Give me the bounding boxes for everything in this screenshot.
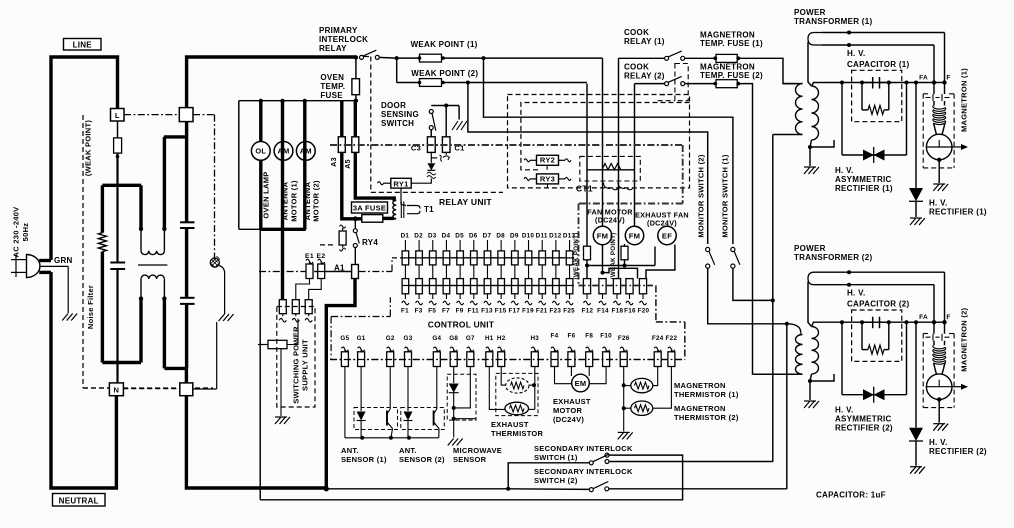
- svg-text:H. V.: H. V.: [847, 49, 865, 58]
- svg-text:POWER: POWER: [794, 244, 826, 253]
- svg-text:H3: H3: [530, 335, 539, 342]
- svg-text:MOTOR (2): MOTOR (2): [312, 180, 321, 222]
- svg-text:ASYMMETRIC: ASYMMETRIC: [835, 415, 892, 424]
- svg-text:F: F: [946, 75, 950, 82]
- svg-text:MAGNETRON (1): MAGNETRON (1): [960, 68, 969, 132]
- svg-text:D10: D10: [522, 233, 535, 240]
- svg-text:ASYMMETRIC: ASYMMETRIC: [835, 175, 892, 184]
- svg-text:TEMP.: TEMP.: [320, 82, 345, 91]
- svg-text:F13: F13: [481, 308, 493, 315]
- svg-text:F17: F17: [508, 308, 520, 315]
- svg-text:F25: F25: [563, 308, 575, 315]
- svg-text:(DC24V): (DC24V): [595, 216, 625, 225]
- svg-text:A3: A3: [331, 157, 338, 167]
- svg-text:RY4: RY4: [362, 238, 378, 247]
- svg-text:(WEAK POINT): (WEAK POINT): [573, 232, 580, 279]
- svg-text:SWITCH: SWITCH: [381, 119, 414, 128]
- svg-text:MAGNETRON: MAGNETRON: [674, 381, 726, 390]
- svg-text:H. V.: H. V.: [847, 289, 865, 298]
- svg-text:RY2: RY2: [540, 156, 555, 165]
- svg-text:COOK: COOK: [624, 28, 649, 37]
- svg-text:INTERLOCK: INTERLOCK: [319, 35, 368, 44]
- svg-text:A5: A5: [345, 159, 352, 169]
- svg-text:F18: F18: [612, 308, 624, 315]
- svg-text:F20: F20: [638, 308, 650, 315]
- svg-text:RECTIFIER (2): RECTIFIER (2): [929, 447, 987, 456]
- svg-text:N: N: [114, 385, 120, 394]
- svg-text:CT1: CT1: [576, 184, 593, 194]
- svg-text:EM: EM: [575, 379, 587, 388]
- svg-text:ANTENNA: ANTENNA: [303, 181, 312, 220]
- svg-text:F21: F21: [536, 308, 548, 315]
- svg-text:FM: FM: [629, 232, 641, 241]
- svg-text:F23: F23: [550, 308, 562, 315]
- svg-text:(DC24V): (DC24V): [647, 219, 677, 228]
- svg-text:ANT.: ANT.: [399, 446, 417, 455]
- svg-text:RY1: RY1: [393, 179, 408, 188]
- svg-text:E1: E1: [305, 253, 314, 260]
- svg-text:50Hz: 50Hz: [21, 223, 30, 242]
- svg-text:TRANSFORMER (1): TRANSFORMER (1): [794, 17, 872, 26]
- svg-text:H. V.: H. V.: [835, 406, 853, 415]
- svg-text:G1: G1: [357, 335, 366, 342]
- svg-text:ANT.: ANT.: [341, 446, 359, 455]
- svg-text:(WEAK POINT): (WEAK POINT): [84, 120, 93, 176]
- svg-text:MAGNETRON (2): MAGNETRON (2): [960, 307, 969, 371]
- svg-text:OL: OL: [255, 147, 266, 156]
- svg-text:F1: F1: [401, 308, 409, 315]
- svg-text:G7: G7: [466, 335, 475, 342]
- svg-text:GRN: GRN: [54, 256, 73, 265]
- svg-text:F4: F4: [551, 332, 559, 339]
- svg-text:THERMISTOR: THERMISTOR: [491, 429, 544, 438]
- svg-text:THERMISTOR (2): THERMISTOR (2): [674, 413, 739, 422]
- svg-text:MAGNETRON: MAGNETRON: [674, 404, 726, 413]
- svg-text:TRANSFORMER (2): TRANSFORMER (2): [794, 253, 872, 262]
- svg-text:THERMISTOR (1): THERMISTOR (1): [674, 390, 739, 399]
- svg-text:F14: F14: [597, 308, 609, 315]
- svg-text:F16: F16: [624, 308, 636, 315]
- svg-text:SUPPLY UNIT: SUPPLY UNIT: [301, 339, 310, 391]
- svg-text:CAPACITOR (2): CAPACITOR (2): [847, 300, 910, 309]
- svg-text:F7: F7: [442, 308, 450, 315]
- svg-text:POWER: POWER: [794, 8, 826, 17]
- svg-text:RECTIFIER (2): RECTIFIER (2): [835, 424, 893, 433]
- svg-text:F12: F12: [582, 308, 594, 315]
- svg-text:SENSOR (1): SENSOR (1): [341, 455, 387, 464]
- svg-text:DOOR: DOOR: [381, 101, 406, 110]
- svg-text:F5: F5: [428, 308, 436, 315]
- svg-text:MOTOR: MOTOR: [553, 406, 582, 415]
- svg-text:SWITCH (1): SWITCH (1): [534, 453, 578, 462]
- svg-text:D3: D3: [428, 233, 437, 240]
- svg-text:MONITOR SWITCH (1): MONITOR SWITCH (1): [721, 154, 730, 237]
- svg-text:COOK: COOK: [624, 63, 649, 72]
- svg-text:EXHAUST: EXHAUST: [491, 420, 529, 429]
- svg-text:(WEAK POINT): (WEAK POINT): [610, 232, 617, 279]
- svg-text:EF: EF: [662, 232, 672, 241]
- svg-text:D5: D5: [455, 233, 464, 240]
- svg-text:MONITOR SWITCH (2): MONITOR SWITCH (2): [697, 154, 706, 237]
- svg-text:(DC24V): (DC24V): [553, 415, 584, 424]
- svg-text:H1: H1: [485, 335, 494, 342]
- svg-text:WEAK POINT (1): WEAK POINT (1): [411, 40, 478, 49]
- svg-text:D9: D9: [510, 233, 519, 240]
- svg-text:G4: G4: [432, 335, 441, 342]
- svg-text:F24: F24: [652, 335, 664, 342]
- svg-text:RELAY UNIT: RELAY UNIT: [439, 197, 492, 207]
- svg-text:FA: FA: [919, 314, 928, 321]
- svg-text:TEMP. FUSE (2): TEMP. FUSE (2): [700, 71, 763, 80]
- svg-text:Noise Filter: Noise Filter: [86, 285, 95, 329]
- svg-text:F15: F15: [495, 308, 507, 315]
- svg-text:F: F: [946, 314, 950, 321]
- svg-text:WEAK POINT (2): WEAK POINT (2): [411, 69, 478, 78]
- svg-text:L: L: [115, 111, 120, 120]
- svg-text:FM: FM: [597, 232, 609, 241]
- svg-text:H. V.: H. V.: [835, 166, 853, 175]
- svg-text:F8: F8: [585, 332, 593, 339]
- svg-text:TEMP. FUSE (1): TEMP. FUSE (1): [700, 39, 763, 48]
- svg-text:SECONDARY INTERLOCK: SECONDARY INTERLOCK: [534, 467, 633, 476]
- svg-text:F9: F9: [456, 308, 464, 315]
- svg-text:SENSOR: SENSOR: [453, 455, 487, 464]
- svg-text:RECTIFIER (1): RECTIFIER (1): [929, 208, 987, 217]
- svg-text:CAPACITOR: 1uF: CAPACITOR: 1uF: [816, 491, 886, 500]
- svg-text:RELAY (2): RELAY (2): [624, 72, 665, 81]
- svg-text:G8: G8: [449, 335, 458, 342]
- svg-text:D1: D1: [401, 233, 410, 240]
- svg-text:D8: D8: [496, 233, 505, 240]
- svg-text:SECONDARY INTERLOCK: SECONDARY INTERLOCK: [534, 444, 633, 453]
- svg-text:3A FUSE: 3A FUSE: [353, 203, 386, 212]
- svg-text:FA: FA: [919, 75, 928, 82]
- svg-text:G3: G3: [404, 335, 413, 342]
- svg-text:RECTIFIER (1): RECTIFIER (1): [835, 184, 893, 193]
- svg-text:CAPACITOR (1): CAPACITOR (1): [847, 60, 910, 69]
- svg-text:RY3: RY3: [540, 174, 555, 183]
- svg-text:F3: F3: [415, 308, 423, 315]
- svg-text:G2: G2: [386, 335, 395, 342]
- svg-text:H. V.: H. V.: [929, 199, 947, 208]
- svg-text:SWITCHING POWER: SWITCHING POWER: [291, 326, 300, 404]
- svg-text:T1: T1: [424, 205, 434, 214]
- svg-text:G5: G5: [340, 335, 349, 342]
- svg-text:AC 230 -240V: AC 230 -240V: [12, 207, 21, 258]
- svg-text:RELAY: RELAY: [319, 44, 347, 53]
- svg-text:SWITCH (2): SWITCH (2): [534, 476, 578, 485]
- svg-text:F10: F10: [600, 332, 612, 339]
- svg-text:F22: F22: [666, 335, 678, 342]
- svg-text:ANTENNA: ANTENNA: [281, 181, 290, 220]
- svg-text:F6: F6: [567, 332, 575, 339]
- svg-text:MOTOR (1): MOTOR (1): [289, 180, 298, 222]
- svg-text:EXHAUST: EXHAUST: [553, 397, 591, 406]
- svg-text:SENSOR (2): SENSOR (2): [399, 455, 445, 464]
- svg-text:D2: D2: [414, 233, 423, 240]
- svg-text:LINE: LINE: [73, 40, 93, 49]
- svg-text:D4: D4: [442, 233, 451, 240]
- svg-text:D11: D11: [536, 233, 548, 240]
- svg-text:OVEN LAMP: OVEN LAMP: [262, 171, 271, 218]
- svg-text:H. V.: H. V.: [929, 438, 947, 447]
- svg-text:F26: F26: [618, 335, 630, 342]
- svg-text:F11: F11: [468, 308, 480, 315]
- svg-text:D12: D12: [549, 233, 562, 240]
- svg-text:SENSING: SENSING: [381, 110, 419, 119]
- svg-text:PRIMARY: PRIMARY: [319, 26, 358, 35]
- svg-text:F19: F19: [522, 308, 534, 315]
- svg-text:E2: E2: [317, 253, 326, 260]
- svg-text:D6: D6: [469, 233, 478, 240]
- svg-text:H2: H2: [497, 335, 506, 342]
- svg-text:FUSE: FUSE: [320, 91, 343, 100]
- svg-text:RELAY (1): RELAY (1): [624, 37, 665, 46]
- svg-text:CONTROL UNIT: CONTROL UNIT: [428, 320, 495, 330]
- svg-text:MICROWAVE: MICROWAVE: [453, 446, 502, 455]
- svg-text:NEUTRAL: NEUTRAL: [59, 496, 99, 505]
- svg-text:OVEN: OVEN: [320, 73, 344, 82]
- svg-text:D7: D7: [483, 233, 492, 240]
